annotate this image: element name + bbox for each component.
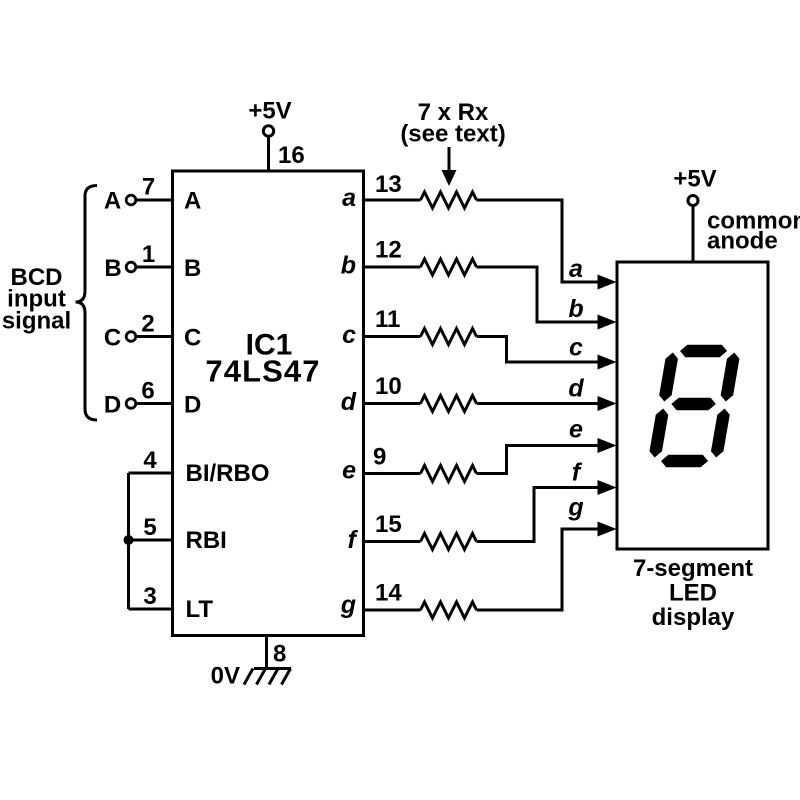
svg-text:d: d (341, 388, 357, 416)
brace for BCD inputs (76, 186, 98, 421)
svg-text:7: 7 (142, 174, 155, 201)
terminal D (126, 399, 136, 409)
svg-text:D: D (184, 392, 201, 419)
svg-text:g: g (567, 494, 583, 522)
label 7-segment LED display (633, 555, 753, 631)
wire pin 16 (267, 137, 270, 172)
IC U1 body (173, 171, 364, 636)
resistor Rx e (421, 466, 477, 482)
svg-text:d: d (568, 375, 584, 403)
svg-text:12: 12 (375, 237, 402, 264)
terminal B (126, 262, 136, 272)
arrowhead g (598, 522, 617, 537)
wire RBI pin 5 (129, 539, 173, 542)
svg-text:display: display (652, 604, 735, 631)
svg-text:5: 5 (143, 514, 156, 541)
svg-text:D: D (104, 392, 121, 419)
svg-text:BI/RBO: BI/RBO (186, 460, 270, 487)
svg-text:anode: anode (707, 228, 778, 255)
svg-text:15: 15 (375, 511, 402, 538)
svg-text:a: a (569, 255, 583, 283)
wire segment c out (363, 335, 421, 338)
svg-text:1: 1 (142, 241, 155, 268)
IC1 74LS47 value label (205, 329, 320, 389)
svg-text:0V: 0V (211, 663, 240, 690)
svg-text:B: B (104, 255, 121, 282)
display DS1 body (617, 262, 768, 549)
svg-text:74LS47: 74LS47 (205, 354, 320, 389)
arrowhead c (598, 355, 617, 370)
svg-text:+5V: +5V (673, 166, 716, 193)
label BCD input signal (2, 264, 71, 335)
wire segment f out (363, 540, 421, 543)
arrowhead e (598, 438, 617, 453)
segment g (670, 398, 717, 411)
svg-text:A: A (184, 188, 201, 215)
arrowhead b (598, 315, 617, 330)
wire b to display (477, 267, 602, 322)
svg-text:RBI: RBI (186, 527, 227, 554)
svg-text:10: 10 (375, 373, 402, 400)
+5V terminal top (263, 126, 273, 136)
wire input C (136, 335, 172, 338)
display digit 8 (647, 345, 742, 468)
svg-text:7-segment: 7-segment (633, 555, 753, 582)
svg-text:A: A (104, 188, 121, 215)
segment f (658, 353, 679, 402)
svg-text:b: b (341, 252, 356, 280)
svg-text:4: 4 (143, 447, 157, 474)
wire segment b out (363, 266, 421, 269)
wire segment e out (363, 472, 421, 475)
wire e to display (477, 446, 602, 474)
label 7 x Rx (see text) (400, 99, 505, 148)
svg-text:3: 3 (143, 583, 156, 610)
segment e (648, 409, 669, 458)
svg-text:14: 14 (375, 580, 402, 607)
wire g to display (477, 529, 602, 610)
wire BI/RBO pin 4 (129, 472, 173, 475)
svg-text:16: 16 (278, 142, 305, 169)
svg-text:(see text): (see text) (400, 121, 505, 148)
wire segment d out (363, 402, 421, 405)
resistor Rx g (421, 602, 477, 618)
svg-text:C: C (104, 325, 121, 352)
wire input A (136, 199, 172, 202)
label common anode (707, 208, 800, 255)
arrowhead a (598, 275, 617, 290)
svg-text:2: 2 (141, 311, 154, 338)
ground symbol (244, 669, 291, 685)
svg-text:LT: LT (186, 596, 214, 623)
+5V terminal right (688, 196, 698, 206)
resistor Rx c (421, 329, 477, 345)
svg-text:9: 9 (373, 444, 386, 471)
segment d (660, 455, 709, 468)
resistor Rx a (421, 192, 477, 208)
wire input B (136, 266, 172, 269)
wire pin 8 (265, 635, 268, 669)
resistor Rx b (421, 259, 477, 275)
wire segment a out (363, 199, 421, 202)
terminal A (126, 195, 136, 205)
svg-text:11: 11 (375, 306, 400, 333)
svg-text:a: a (342, 184, 356, 212)
wire LT pin 3 (129, 608, 173, 611)
wire common anode (692, 206, 695, 263)
svg-text:b: b (568, 295, 583, 323)
svg-text:8: 8 (273, 641, 286, 668)
arrowhead d (598, 396, 617, 411)
svg-text:13: 13 (375, 171, 402, 198)
wire c to display (477, 337, 602, 363)
junction dot (124, 535, 134, 545)
svg-text:B: B (184, 255, 201, 282)
wire d to display (477, 402, 602, 405)
svg-text:signal: signal (2, 308, 71, 335)
arrowhead f (598, 480, 617, 495)
svg-text:e: e (569, 416, 583, 444)
terminal C (126, 332, 136, 342)
segment a (679, 345, 728, 358)
resistor Rx d (421, 396, 477, 412)
wire a to display (477, 200, 602, 282)
resistor Rx f (421, 534, 477, 550)
svg-text:+5V: +5V (248, 98, 291, 125)
segment c (710, 409, 731, 458)
svg-text:6: 6 (141, 378, 154, 405)
pointer arrow to Rx (442, 147, 457, 186)
wire f to display (477, 488, 602, 542)
wire control link vertical (127, 473, 130, 609)
svg-text:c: c (342, 321, 356, 349)
svg-text:e: e (342, 457, 356, 485)
segment b (720, 353, 741, 402)
svg-text:g: g (340, 591, 356, 619)
wire input D (136, 402, 172, 405)
svg-text:c: c (569, 334, 583, 362)
svg-text:C: C (184, 325, 201, 352)
wire segment g out (363, 609, 421, 612)
svg-text:LED: LED (669, 580, 717, 607)
